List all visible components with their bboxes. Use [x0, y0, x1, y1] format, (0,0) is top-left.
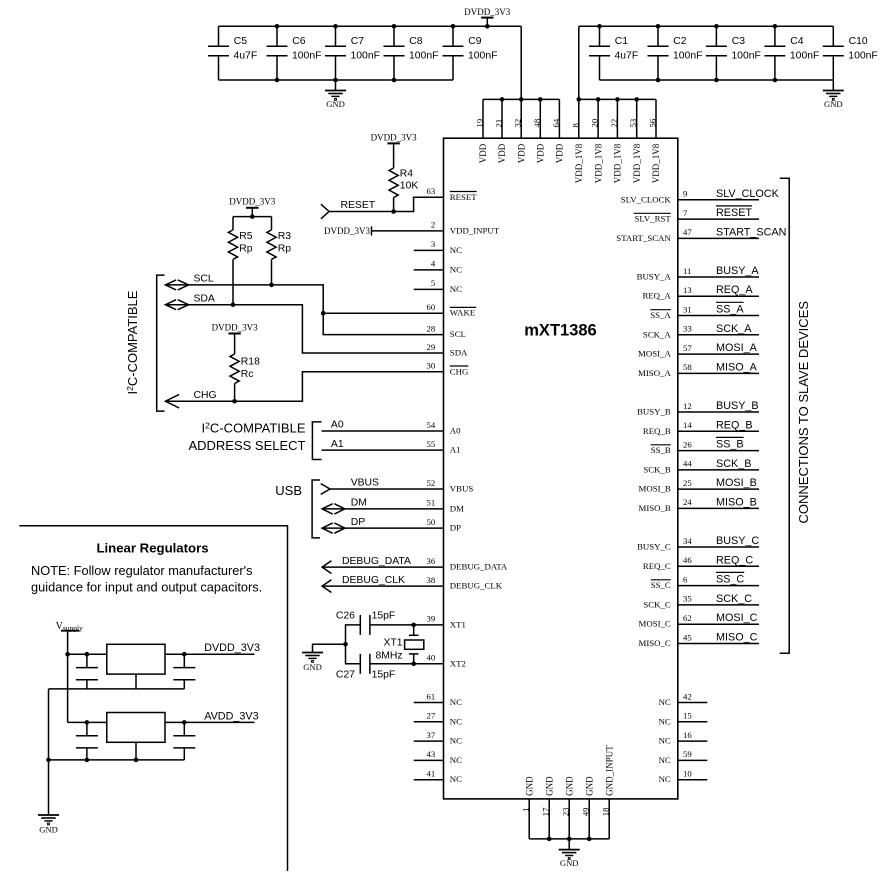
svg-text:28: 28 — [427, 323, 436, 333]
node: R18 on CHG — [232, 399, 237, 404]
wire: DVDD regulator output rail — [165, 653, 255, 655]
svg-text:XT2: XT2 — [450, 658, 466, 668]
wire: DM to pin 51 — [322, 508, 443, 510]
svg-text:RESET: RESET — [716, 207, 752, 219]
pin number 17 — [540, 807, 550, 816]
wire: rail to R5 — [232, 217, 234, 230]
output arrow DEBUG_CLK — [322, 580, 331, 593]
ground (IC bottom) — [559, 839, 580, 868]
wire: AVDD regulator input rail — [68, 721, 107, 723]
pin name VDD (pin 48) — [536, 143, 546, 163]
net label CHG — [194, 390, 217, 401]
svg-text:55: 55 — [427, 439, 436, 449]
junction dots on right bank bottom rail — [656, 78, 778, 83]
pin number 56 — [648, 118, 658, 127]
pin 7 SLV_RST / net RESET — [634, 206, 759, 224]
svg-text:A1: A1 — [450, 445, 461, 455]
svg-text:GND: GND — [303, 662, 322, 672]
svg-text:REQ_B: REQ_B — [643, 426, 671, 436]
pin 12 BUSY_B / net BUSY_B — [637, 400, 759, 417]
pin 63 RESET label+number — [427, 186, 478, 202]
wire: left bank rail down to VDD pin bus — [520, 26, 522, 99]
svg-text:DVDD_3V3: DVDD_3V3 — [464, 7, 510, 17]
svg-text:SLV_RST: SLV_RST — [634, 214, 671, 224]
pin 49 GND stub — [588, 799, 590, 839]
svg-text:14: 14 — [683, 420, 692, 430]
svg-text:R4: R4 — [400, 169, 414, 180]
net label DM — [351, 498, 367, 509]
svg-text:NC: NC — [450, 264, 462, 274]
pin number 8 — [570, 123, 580, 128]
svg-text:START_SCAN: START_SCAN — [616, 233, 671, 243]
svg-text:NC: NC — [659, 774, 671, 784]
svg-text:50: 50 — [427, 517, 436, 527]
pin 34 BUSY_C / net BUSY_C — [637, 535, 759, 552]
net label SCL — [194, 274, 214, 285]
svg-text:Rp: Rp — [239, 243, 253, 254]
svg-text:54: 54 — [427, 420, 436, 430]
pin number 19 — [475, 119, 485, 128]
svg-text:VDD: VDD — [516, 143, 526, 163]
svg-text:CHG: CHG — [450, 366, 469, 376]
pin 27 NC label+number — [427, 711, 463, 727]
svg-text:MOSI_A: MOSI_A — [716, 342, 758, 354]
wire: DVDD_3V3 top rail (left capacitor bank) — [219, 25, 522, 27]
svg-text:VBUS: VBUS — [351, 478, 379, 489]
input arrow RESET — [321, 204, 329, 219]
svg-text:45: 45 — [683, 632, 692, 642]
svg-text:DEBUG_CLK: DEBUG_CLK — [342, 575, 405, 586]
svg-text:MISO_B: MISO_B — [716, 496, 757, 508]
svg-text:100nF: 100nF — [790, 50, 819, 61]
svg-text:A0: A0 — [450, 426, 461, 436]
svg-text:15pF: 15pF — [372, 669, 396, 680]
svg-text:VDD: VDD — [555, 143, 565, 163]
pin 64 VDD stub — [558, 99, 560, 138]
pin name VDD_1V8 (pin 20) — [593, 143, 603, 183]
svg-text:100nF: 100nF — [468, 50, 497, 61]
pin number 64 — [551, 118, 561, 127]
wire: bottom GND bus — [529, 838, 609, 840]
svg-text:2: 2 — [431, 220, 435, 230]
svg-text:DM: DM — [450, 503, 464, 513]
svg-text:NC: NC — [659, 736, 671, 746]
wire: DVDD regulator ground pin — [135, 674, 137, 689]
svg-text:38: 38 — [427, 575, 436, 585]
power flag DVDD_3V3 (above R18) — [212, 322, 258, 354]
power flag DVDD_3V3 (top) — [464, 7, 510, 26]
svg-text:MISO_C: MISO_C — [716, 632, 758, 644]
svg-text:100nF: 100nF — [351, 50, 380, 61]
svg-text:R18: R18 — [241, 356, 260, 367]
pin 41 NC stub — [414, 779, 444, 781]
svg-text:41: 41 — [427, 769, 436, 779]
capacitor (AVDD reg input) — [76, 722, 98, 760]
pin name GND (pin 23) — [564, 776, 574, 796]
svg-text:GND_INPUT: GND_INPUT — [604, 745, 614, 796]
svg-text:NC: NC — [450, 755, 462, 765]
pin 10 NC (right) — [659, 769, 708, 785]
node: WAKE branch on SCL — [321, 311, 326, 316]
pin 53 VDD_1V8 stub — [636, 99, 638, 138]
svg-text:DEBUG_CLK: DEBUG_CLK — [450, 581, 503, 591]
svg-text:REQ_B: REQ_B — [716, 419, 753, 431]
bidir arrow SCL — [165, 280, 188, 290]
ground (right capacitor bank) — [823, 80, 844, 109]
svg-text:26: 26 — [683, 439, 692, 449]
pin name VDD_1V8 (pin 56) — [651, 143, 661, 183]
svg-text:R5: R5 — [239, 231, 253, 242]
net label SDA — [194, 293, 215, 304]
pin 4 NC stub — [414, 269, 444, 271]
svg-text:29: 29 — [427, 342, 436, 352]
svg-text:25: 25 — [683, 478, 692, 488]
svg-text:GND: GND — [326, 99, 345, 109]
net label DP — [351, 517, 366, 528]
node: crystal caps ground branch — [343, 642, 348, 647]
capacitor C4 100nF — [764, 26, 819, 80]
svg-text:C7: C7 — [351, 36, 365, 47]
wire: A1 to pin 55 — [322, 449, 444, 451]
wire: DVDD_3V3 to pin 2 — [372, 230, 444, 232]
svg-text:DEBUG_DATA: DEBUG_DATA — [450, 562, 508, 572]
pin 2 VDD_INPUT label+number — [431, 220, 500, 236]
svg-text:SS_C: SS_C — [716, 574, 744, 586]
capacitor C2 100nF — [648, 26, 703, 80]
svg-text:DP: DP — [351, 517, 366, 528]
svg-text:40: 40 — [427, 653, 436, 663]
svg-text:NC: NC — [659, 697, 671, 707]
regulator U3 (AVDD_3V3) — [107, 713, 165, 743]
svg-text:GND: GND — [564, 776, 574, 796]
pin number 48 — [532, 118, 542, 127]
svg-text:4: 4 — [431, 259, 436, 269]
svg-text:63: 63 — [427, 186, 436, 196]
net label DEBUG_DATA — [342, 556, 411, 567]
note text line 1 — [31, 563, 253, 578]
node: output cap (AVDD reg) — [182, 720, 187, 725]
svg-text:VDD: VDD — [497, 143, 507, 163]
pin number 22 — [609, 119, 619, 128]
pin name VDD_1V8 (pin 22) — [613, 143, 623, 183]
svg-text:C8: C8 — [409, 36, 423, 47]
svg-text:REQ_C: REQ_C — [643, 561, 671, 571]
pin 13 REQ_A / net REQ_A — [642, 284, 759, 301]
svg-text:21: 21 — [494, 119, 504, 128]
pin 57 MOSI_A / net MOSI_A — [638, 342, 759, 359]
power flag DVDD_3V3 (above R4) — [371, 133, 417, 168]
svg-text:MOSI_C: MOSI_C — [639, 619, 671, 629]
wire: DP to pin 50 — [322, 527, 443, 529]
wire: GND bottom rail (right capacitor bank) — [600, 79, 834, 81]
svg-text:DEBUG_DATA: DEBUG_DATA — [342, 556, 411, 567]
svg-text:SLV_CLOCK: SLV_CLOCK — [621, 194, 672, 204]
wire: DVDD regulator ground rail — [49, 688, 185, 690]
node: ground rail junctions — [46, 758, 138, 763]
pin 56 VDD_1V8 stub — [655, 99, 657, 138]
pin 44 SCK_B / net SCK_B — [643, 458, 759, 475]
wire: GND bottom rail (left capacitor bank) — [219, 79, 454, 81]
pin 36 DEBUG_DATA label+number — [427, 556, 508, 572]
svg-text:44: 44 — [683, 459, 692, 469]
pin 37 NC stub — [414, 740, 444, 742]
svg-text:R3: R3 — [278, 231, 292, 242]
capacitor C9 100nF — [443, 26, 498, 80]
svg-text:C2: C2 — [673, 36, 687, 47]
wire: C26 to pin 39 (XT1) — [370, 624, 444, 626]
crystal XT1 8MHz — [375, 625, 423, 664]
svg-text:15pF: 15pF — [372, 611, 396, 622]
pin number 18 — [600, 807, 610, 816]
pin 54 A0 label+number — [427, 420, 462, 436]
svg-text:START_SCAN: START_SCAN — [716, 226, 786, 238]
bracket I2C-COMPATIBLE group — [157, 275, 165, 411]
svg-text:MOSI_B: MOSI_B — [639, 484, 671, 494]
svg-text:C3: C3 — [732, 36, 746, 47]
svg-text:VDD_1V8: VDD_1V8 — [574, 143, 584, 183]
regulator U2 (DVDD_3V3) — [107, 644, 165, 674]
capacitor (DVDD reg output) — [173, 654, 195, 689]
wire: AVDD regulator ground pin — [135, 742, 137, 760]
svg-text:5: 5 — [431, 278, 435, 288]
svg-text:SS_A: SS_A — [716, 304, 744, 316]
svg-text:REQ_C: REQ_C — [716, 554, 753, 566]
svg-text:DVDD_3V3: DVDD_3V3 — [212, 322, 258, 332]
pin 9 SLV_CLOCK / net SLV_CLOCK — [621, 188, 780, 205]
svg-text:SS_B: SS_B — [716, 439, 744, 451]
svg-text:Rc: Rc — [241, 369, 254, 380]
svg-text:guidance for input and output: guidance for input and output capacitors… — [31, 579, 262, 594]
svg-text:GND: GND — [39, 825, 58, 835]
svg-text:MOSI_A: MOSI_A — [638, 349, 671, 359]
svg-text:31: 31 — [683, 304, 692, 314]
svg-text:10K: 10K — [400, 181, 419, 192]
svg-text:24: 24 — [683, 497, 692, 507]
pin 4 NC label+number — [431, 259, 462, 275]
svg-text:BUSY_C: BUSY_C — [637, 542, 671, 552]
svg-text:17: 17 — [540, 807, 550, 816]
svg-text:CHG: CHG — [194, 390, 217, 401]
svg-text:SDA: SDA — [450, 348, 468, 358]
svg-text:XT1: XT1 — [384, 637, 403, 648]
net label A0 — [331, 420, 344, 431]
pin 6 SS_C / net SS_C — [651, 572, 759, 590]
pin 5 NC label+number — [431, 278, 462, 294]
capacitor C5 4u7F — [208, 26, 257, 80]
svg-text:DP: DP — [450, 523, 461, 533]
output arrow DEBUG_DATA — [322, 561, 331, 574]
svg-text:27: 27 — [427, 711, 436, 721]
wire: C26/C27 left link — [346, 625, 361, 664]
capacitor C3 100nF — [706, 26, 761, 80]
wire: rail to R3 — [271, 217, 273, 230]
wire: C27 to pin 40 (XT2) — [370, 663, 444, 665]
net label AVDD_3V3 (regulator output) — [204, 710, 258, 722]
bracket USB group — [312, 480, 320, 538]
pin number 32 — [513, 119, 523, 128]
svg-text:MOSI_B: MOSI_B — [716, 477, 757, 489]
junction dots on right bank top rail — [597, 24, 777, 29]
power flag DVDD_3V3 (above R5/R3) — [229, 197, 275, 217]
svg-text:52: 52 — [427, 478, 436, 488]
svg-text:8MHz: 8MHz — [375, 650, 402, 661]
svg-text:SCK_C: SCK_C — [716, 593, 752, 605]
pin 59 NC (right) — [659, 749, 708, 765]
svg-text:SCK_A: SCK_A — [643, 329, 672, 339]
wire: DEBUG_DATA to pin 36 — [322, 566, 443, 568]
svg-text:62: 62 — [683, 613, 692, 623]
svg-text:SS_A: SS_A — [650, 310, 671, 320]
svg-text:SCL: SCL — [194, 274, 214, 285]
svg-text:53: 53 — [628, 119, 638, 128]
svg-text:GND: GND — [544, 776, 554, 796]
svg-text:30: 30 — [427, 361, 436, 371]
svg-text:23: 23 — [560, 808, 570, 817]
svg-text:GND: GND — [560, 858, 579, 868]
pin 30 CHG label+number — [427, 361, 470, 377]
pin name GND (pin 1) — [524, 776, 534, 796]
svg-text:GND: GND — [584, 776, 594, 796]
wire: right bank rail down to VDD_1V8 pin bus — [578, 26, 580, 99]
pin 39 XT1 label+number — [427, 614, 466, 630]
svg-text:USB: USB — [275, 483, 302, 498]
pin name VDD (pin 64) — [555, 143, 565, 163]
caption I2C-COMPATIBLE (vertical) — [125, 290, 140, 394]
svg-text:DVDD_3V3: DVDD_3V3 — [371, 133, 417, 143]
IC name mXT1386 — [524, 322, 596, 340]
svg-text:MOSI_C: MOSI_C — [716, 612, 758, 624]
wire: Vsupply down to AVDD regulator input — [67, 654, 69, 722]
svg-text:56: 56 — [648, 118, 658, 127]
note frame (top+right edges) — [19, 526, 287, 871]
svg-text:DVDD_3V3: DVDD_3V3 — [204, 642, 260, 654]
svg-text:18: 18 — [600, 807, 610, 816]
svg-text:C27: C27 — [336, 669, 355, 680]
svg-text:mXT1386: mXT1386 — [524, 322, 596, 340]
wire: A0 to pin 54 — [322, 430, 444, 432]
svg-text:NC: NC — [450, 736, 462, 746]
svg-text:BUSY_B: BUSY_B — [637, 407, 671, 417]
pin 29 SDA label+number — [427, 342, 469, 358]
wire: DEBUG_CLK to pin 38 — [322, 585, 443, 587]
pin 22 VDD_1V8 stub — [616, 99, 618, 138]
pin name GND (pin 49) — [584, 776, 594, 796]
note text line 2 — [31, 579, 262, 594]
svg-text:10: 10 — [683, 769, 692, 779]
pin 61 NC label+number — [427, 691, 463, 707]
svg-text:VDD: VDD — [478, 143, 488, 163]
pin 48 VDD stub — [539, 99, 541, 138]
capacitor C7 100nF — [325, 26, 380, 80]
svg-text:MISO_C: MISO_C — [639, 638, 671, 648]
svg-text:A0: A0 — [331, 420, 344, 431]
svg-text:REQ_A: REQ_A — [642, 291, 671, 301]
wire: R4 bottom to RESET node — [393, 198, 395, 212]
pin 5 NC stub — [414, 288, 444, 290]
pin 43 NC label+number — [427, 749, 463, 765]
wire: R5 bottom to SDA wire — [232, 259, 234, 304]
svg-text:BUSY_B: BUSY_B — [716, 400, 759, 412]
wire: VDD_1V8 pin bus — [579, 98, 656, 100]
svg-text:C6: C6 — [292, 36, 306, 47]
pin 37 NC label+number — [427, 730, 463, 746]
svg-text:CONNECTIONS TO SLAVE DEVICES: CONNECTIONS TO SLAVE DEVICES — [796, 301, 811, 524]
capacitor C1 4u7F — [589, 26, 638, 80]
pin name VDD (pin 32) — [516, 143, 526, 163]
svg-text:MISO_A: MISO_A — [638, 368, 671, 378]
svg-text:42: 42 — [683, 691, 692, 701]
svg-text:16: 16 — [683, 730, 692, 740]
svg-text:61: 61 — [427, 691, 436, 701]
pin 51 DM label+number — [427, 498, 465, 514]
svg-text:WAKE: WAKE — [450, 308, 475, 318]
pin 43 NC stub — [414, 759, 444, 761]
pin name VDD_1V8 (pin 53) — [632, 143, 642, 183]
svg-text:12: 12 — [683, 401, 692, 411]
junction dots GND bus — [547, 837, 592, 842]
capacitor C27 15pF — [336, 654, 395, 681]
output arrow CHG — [165, 394, 179, 408]
svg-text:DM: DM — [351, 498, 367, 509]
pin 46 REQ_C / net REQ_C — [643, 554, 759, 571]
pin 38 DEBUG_CLK label+number — [427, 575, 503, 591]
resistor R5 Rp — [228, 230, 252, 260]
bidir arrow SDA — [165, 300, 188, 310]
svg-text:XT1: XT1 — [450, 619, 466, 629]
svg-text:46: 46 — [683, 555, 692, 565]
title Linear Regulators — [96, 541, 208, 556]
svg-text:C5: C5 — [234, 36, 248, 47]
svg-text:SDA: SDA — [194, 293, 215, 304]
svg-text:SS_B: SS_B — [651, 445, 671, 455]
wire: VDD pin bus — [483, 98, 559, 100]
svg-text:SCK_A: SCK_A — [716, 323, 752, 335]
svg-text:43: 43 — [427, 749, 436, 759]
junction dots VDD bus — [500, 97, 543, 102]
pin 42 NC (right) — [659, 691, 708, 707]
svg-text:9: 9 — [683, 189, 687, 199]
node: R5 on SDA — [231, 302, 236, 307]
pin 62 MOSI_C / net MOSI_C — [639, 612, 759, 629]
net tick (VDD_INPUT) — [371, 226, 373, 235]
svg-text:100nF: 100nF — [731, 50, 760, 61]
bidir arrow DP — [322, 523, 345, 533]
svg-text:60: 60 — [427, 302, 436, 312]
pin 35 SCK_C / net SCK_C — [643, 593, 759, 610]
pin 31 SS_A / net SS_A — [650, 302, 759, 320]
pin 52 VBUS label+number — [427, 478, 474, 494]
svg-text:47: 47 — [683, 227, 692, 237]
pin number 1 — [520, 808, 530, 812]
pin 28 SCL label+number — [427, 323, 466, 339]
capacitor C6 100nF — [267, 26, 322, 80]
pin 16 NC (right) — [659, 730, 708, 746]
junction dots VDD_1V8 bus — [577, 97, 640, 102]
svg-text:SCL: SCL — [450, 329, 466, 339]
svg-text:48: 48 — [532, 118, 542, 127]
IC U1 mXT1386 body outline — [444, 138, 678, 799]
net label DVDD_3V3 (VDD_INPUT) — [324, 226, 370, 236]
pin name VDD (pin 21) — [497, 143, 507, 163]
svg-text:3: 3 — [431, 239, 435, 249]
wire: VBUS to pin 52 — [330, 488, 444, 490]
pin 3 NC stub — [414, 249, 444, 251]
svg-text:ADDRESS SELECT: ADDRESS SELECT — [188, 438, 305, 453]
pin name VDD_1V8 (pin 8) — [574, 143, 584, 183]
node: R3 on SCL — [269, 283, 274, 288]
svg-text:100nF: 100nF — [409, 50, 438, 61]
svg-text:MISO_B: MISO_B — [639, 503, 671, 513]
